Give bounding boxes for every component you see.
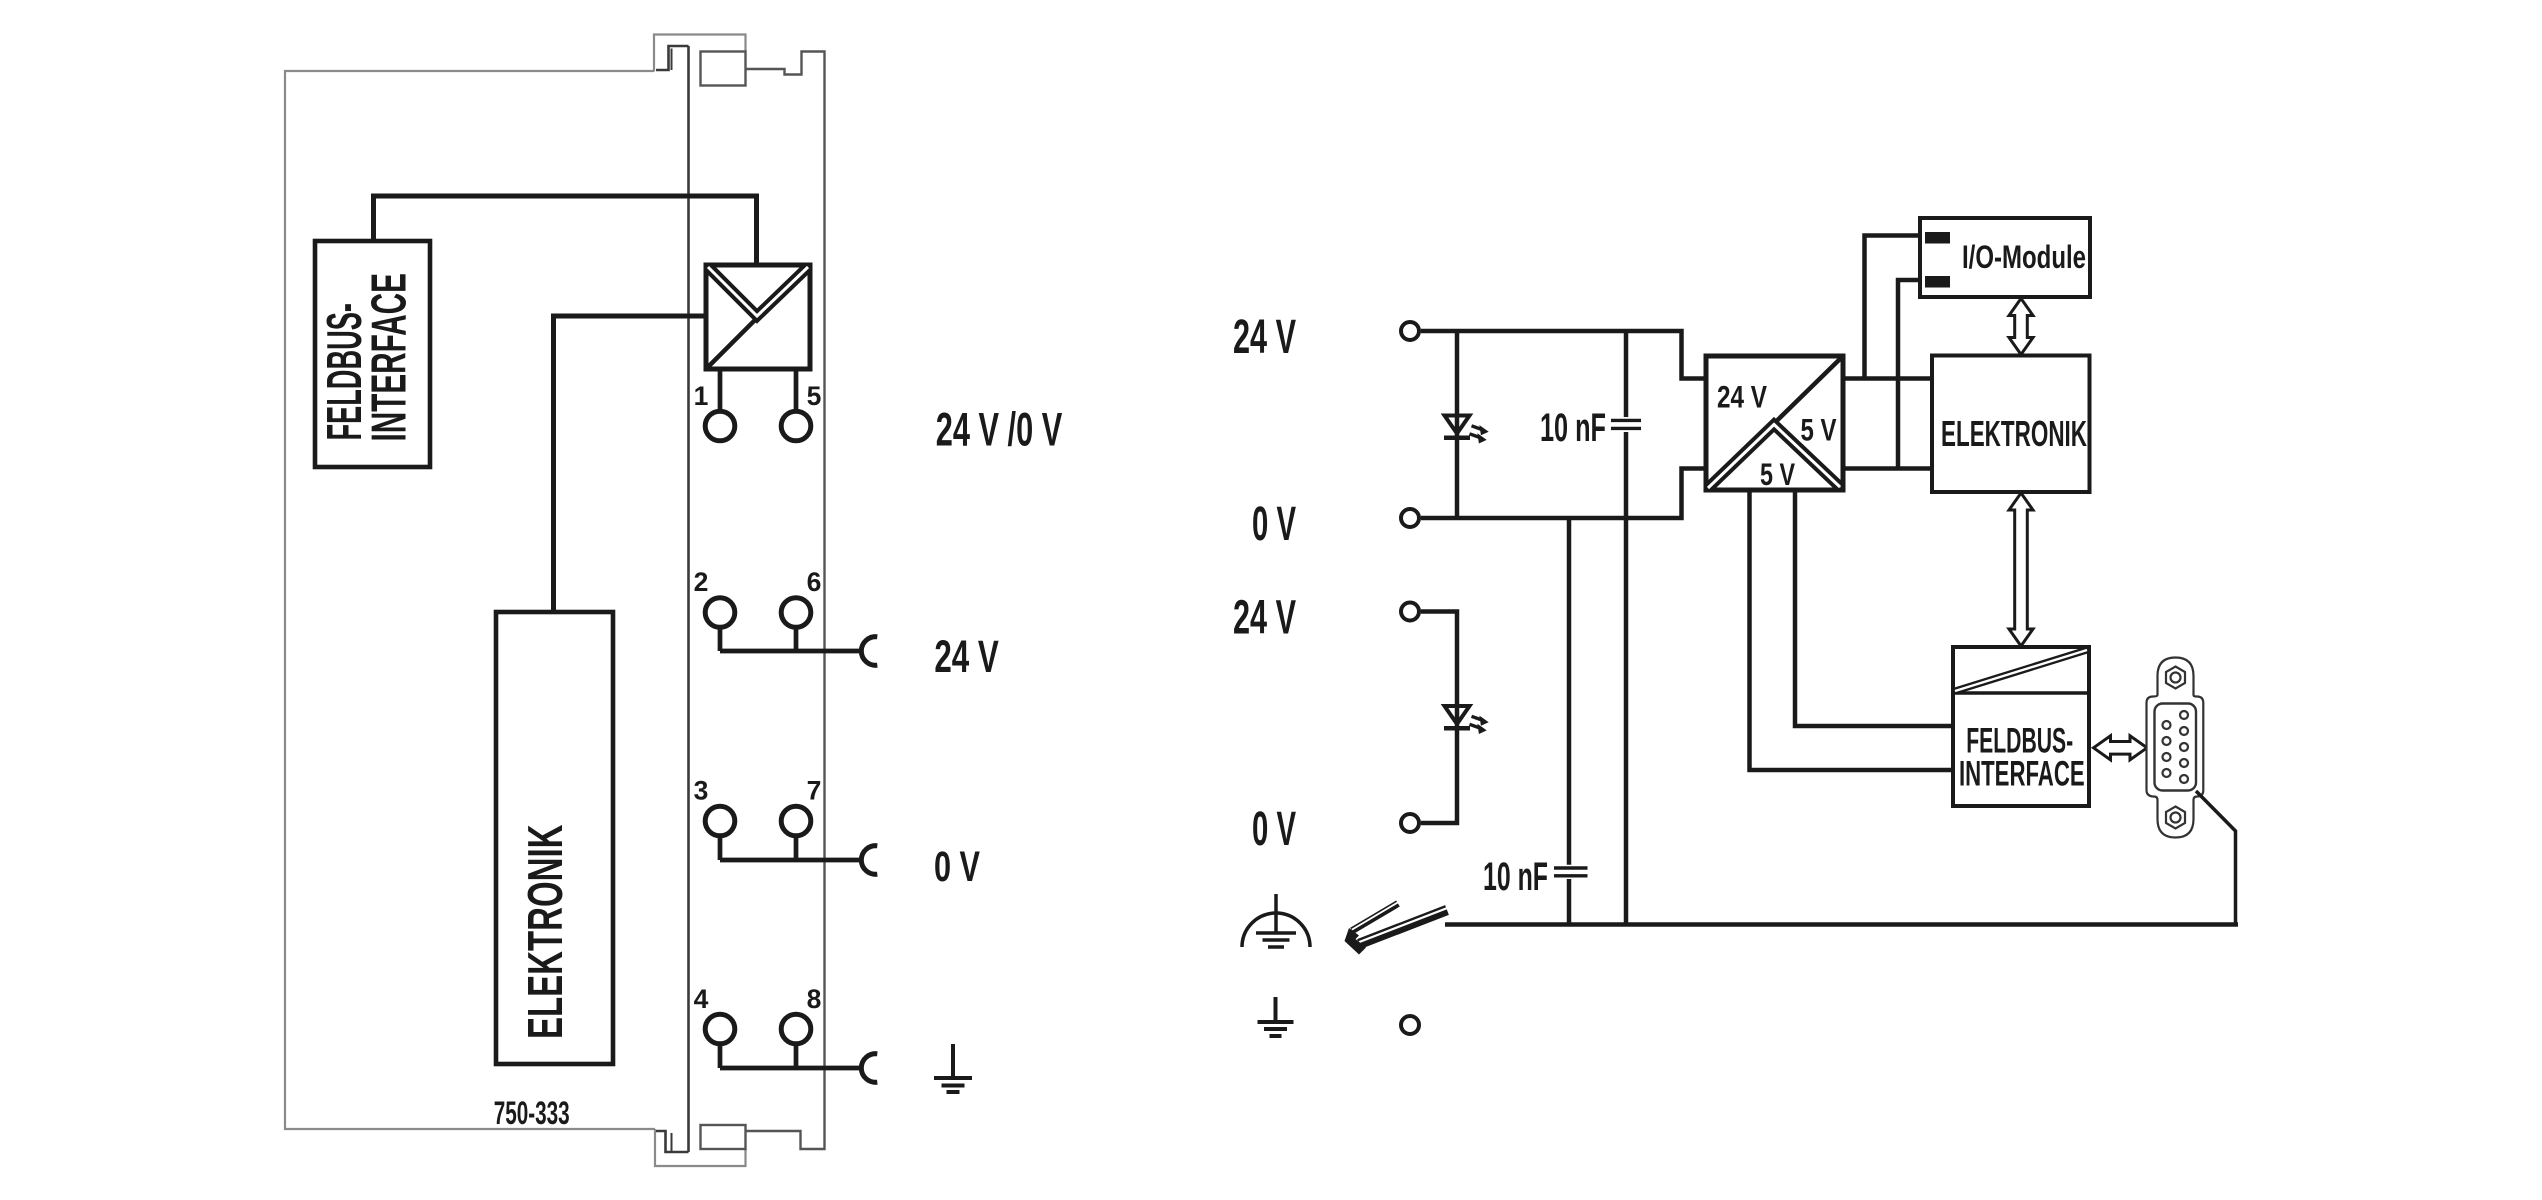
wire 0V top	[1421, 469, 1706, 519]
terminal stems row 1	[720, 369, 796, 412]
svg-text:24 V: 24 V	[1233, 311, 1296, 364]
svg-text:24 V: 24 V	[934, 631, 999, 682]
converter T2 chevron	[1708, 425, 1840, 489]
connector arc row 3	[861, 846, 877, 875]
LED1 branch wire	[1455, 331, 1460, 518]
svg-text:4: 4	[694, 984, 709, 1014]
wires T2 to ELEKTRONIK	[1843, 379, 1932, 469]
box FELDBUS-INTERFACE (left)	[315, 241, 430, 467]
svg-text:750-333: 750-333	[494, 1095, 570, 1131]
svg-text:ELEKTRONIK: ELEKTRONIK	[519, 825, 573, 1040]
LED2	[1444, 706, 1488, 733]
svg-text:24 V: 24 V	[1717, 379, 1767, 415]
rail foot rectangle bottom	[701, 1125, 746, 1149]
terminal circle 1	[705, 411, 735, 441]
wire row 3	[720, 836, 861, 860]
svg-text:8: 8	[807, 984, 822, 1014]
svg-text:24 V /0 V: 24 V /0 V	[936, 404, 1063, 457]
wire FELDBUS-INTERFACE to converter top	[374, 196, 757, 265]
rail claw bottom	[656, 1131, 689, 1152]
module outline (outer thin gray box)	[285, 35, 746, 1167]
svg-text:I/O-Module: I/O-Module	[1962, 239, 2086, 275]
functional earth symbol	[1242, 894, 1310, 947]
svg-text:7: 7	[807, 776, 822, 806]
wire to I/O pin 2	[1898, 280, 1925, 469]
svg-text:10 nF: 10 nF	[1540, 406, 1606, 450]
rail claw top	[656, 46, 689, 70]
rail foot rectangle top	[701, 52, 746, 86]
svg-text:INTERFACE: INTERFACE	[362, 273, 416, 442]
FELDBUS-INTERFACE box (right)	[1953, 647, 2089, 806]
D-sub connector X1	[2147, 658, 2204, 838]
capacitor C2 vertical wire	[1567, 518, 1572, 925]
connector arc row 4	[861, 1054, 877, 1083]
svg-text:2: 2	[694, 567, 709, 597]
converter symbol T1 (left module)	[706, 265, 810, 369]
terminal circle 0V-1	[1401, 509, 1419, 527]
svg-text:ELEKTRONIK: ELEKTRONIK	[1941, 413, 2087, 454]
connector arc row 2	[861, 637, 877, 666]
row 2 terminals	[705, 598, 735, 628]
svg-text:5 V: 5 V	[1760, 456, 1795, 492]
capacitor C2 plates	[1554, 868, 1588, 876]
double arrow I/O to ELEKTRONIK	[2009, 299, 2033, 355]
wire to I/O pin 1	[1865, 236, 1926, 379]
svg-text:0 V: 0 V	[1252, 498, 1296, 551]
svg-text:0 V: 0 V	[1252, 803, 1296, 856]
I/O-Module box	[1920, 218, 2090, 297]
wire 24V top	[1421, 331, 1706, 379]
row 3 terminals	[705, 806, 735, 836]
converter T2 diagonal	[1708, 358, 1841, 488]
svg-text:5 V: 5 V	[1801, 412, 1837, 448]
earth ground symbol bottom	[1258, 997, 1294, 1036]
double arrow ELEKTRONIK to FELDBUS	[2009, 493, 2033, 646]
capacitor C1 vertical wire	[1624, 331, 1629, 925]
wire LED2 group	[1421, 612, 1457, 824]
terminal circle earth	[1401, 1016, 1419, 1034]
svg-text:6: 6	[807, 567, 822, 597]
wire row 4	[720, 1044, 861, 1068]
ground symbol row 4	[934, 1044, 972, 1092]
wire row 2	[720, 627, 861, 651]
cable shield wire from D-sub	[2196, 791, 2236, 925]
terminal circle 24V-2	[1401, 603, 1419, 621]
ground rail line	[1445, 922, 2238, 927]
module left edge (dark)	[687, 46, 690, 1152]
wires T2 to FELDBUS-INTERFACE	[1750, 490, 1954, 770]
box ELEKTRONIK (left)	[496, 612, 613, 1064]
double arrow FELDBUS to D-sub	[2094, 736, 2148, 760]
svg-text:24 V: 24 V	[1233, 592, 1296, 645]
svg-text:INTERFACE: INTERFACE	[1959, 755, 2085, 794]
terminal circle 5	[781, 411, 811, 441]
capacitor C1 plates	[1611, 420, 1641, 428]
module right edge with steps	[746, 52, 825, 1150]
I/O pin 1	[1925, 232, 1950, 244]
I/O pin 2	[1925, 276, 1950, 288]
DIN rail icon	[1345, 902, 1448, 954]
svg-text:3: 3	[694, 776, 709, 806]
svg-text:5: 5	[807, 381, 822, 411]
LED1	[1444, 416, 1488, 443]
ELEKTRONIK box (right)	[1932, 356, 2090, 493]
terminal circle 24V-1	[1401, 322, 1419, 340]
terminal circle 0V-2	[1401, 814, 1419, 832]
svg-text:10 nF: 10 nF	[1483, 855, 1548, 899]
converter T2 box	[1706, 356, 1843, 490]
row 4 terminals	[705, 1014, 735, 1044]
svg-text:1: 1	[694, 381, 709, 411]
svg-text:0 V: 0 V	[934, 843, 980, 891]
wire ELEKTRONIK to converter left	[554, 316, 707, 612]
